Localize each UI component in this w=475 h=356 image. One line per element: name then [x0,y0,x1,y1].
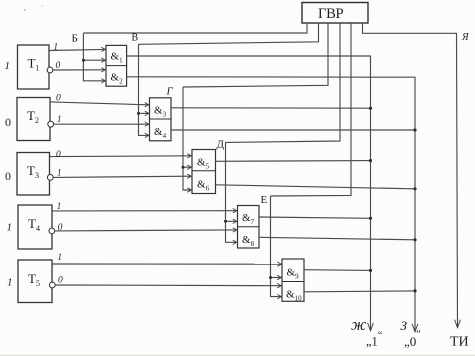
svg-text:ГВР: ГВР [318,6,343,22]
junction dot net Е tap [269,276,272,279]
svg-text:Б: Б [72,33,78,45]
svg-text:З: З [401,318,408,333]
wire: gate &10 output joining З line [304,290,415,293]
wire: gate &2 output to collector line З [127,77,415,332]
svg-text:0: 0 [58,223,63,233]
T2 inverted output pin (bubble) [48,121,54,127]
svg-text:ж: ж [351,315,367,334]
wire: net Е tap to gate &9 input 2 [271,277,282,279]
T4 inverted output pin (bubble) [49,228,55,234]
generator block ГВР [302,3,368,24]
wire: net Г tap to gate &5 input 2 [183,166,191,168]
gate block U4: AND gates &7 and &8 [238,206,260,249]
wire: T1 direct output 1 to gate &1 input 1 [49,49,105,50]
svg-text:1: 1 [5,60,11,72]
wire: T2 direct output 0 to gate &3 input 1 [50,102,149,105]
scan artifact speck [24,9,26,11]
wire: net В tap to gate &3 input 2 [139,112,149,114]
T3 inverted output pin (bubble) [47,175,53,181]
svg-text:1: 1 [54,42,59,52]
junction dot net Г tap [182,166,185,169]
wire: ГВР pin6 to node Я and ТИ output [363,23,458,328]
wire: net Д tap to gate &7 input 2 [226,220,237,222]
wire: net Е vertical feed [271,196,282,297]
wire: gate &5 output joining ж line [216,160,371,163]
junction dot net В tap [137,112,140,115]
svg-text:0: 0 [5,169,11,183]
wire: net Б vertical feed [83,33,105,81]
wire: net Г vertical feed [183,87,191,190]
wire: gate &6 output joining З line [216,185,416,189]
wire: T3 inverted output 1 to gate &6 input 1 [53,176,191,177]
junction dot net Б tap [82,59,85,62]
junction dot &5 output on ж line [369,159,372,162]
wire: gate &7 output joining ж line [259,217,371,218]
svg-text:1: 1 [57,201,62,211]
wire: net Д vertical feed [226,142,237,242]
svg-text:1: 1 [7,277,13,289]
wire: net Б tap to gate &1 input 2 [83,59,105,61]
junction dot &8 output on З line [413,238,416,241]
svg-text:Г: Г [166,86,174,98]
wire: gate &3 output joining ж line [171,107,371,109]
svg-text:Д: Д [217,139,225,151]
svg-text:1: 1 [57,168,62,178]
wire: net В vertical feed [139,44,149,135]
wire: T4 inverted output 0 to gate &8 input 1 [55,230,237,231]
gate block U5: AND gates &9 and &10 [282,259,304,302]
gate block U2: AND gates &3 and &4 [150,98,172,141]
svg-text:0: 0 [56,150,61,160]
svg-text:Е: Е [261,194,268,206]
wire: T2 inverted output 1 to gate &4 input 1 [54,123,149,125]
wire: T5 direct output 1 to gate &9 input 1 [52,263,281,265]
junction dot &6 output on З line [413,187,416,190]
gate block U1: AND gates &1 and &2 [106,45,127,86]
trigger T4 [18,205,52,249]
wire: gate &4 output joining З line [171,129,415,131]
trigger T3 [17,153,50,196]
junction dot net Д tap [224,220,227,223]
svg-text:1: 1 [57,114,62,124]
gate block U3: AND gates &5 and &6 [192,150,216,194]
trigger T2 [17,98,50,141]
T1 inverted output pin (bubble) [47,67,53,73]
wire: ГВР pin2 drop to net В [139,23,319,44]
svg-text:ТИ: ТИ [450,335,469,350]
svg-text:1: 1 [7,222,13,234]
junction dot &3 output on ж line [369,107,372,110]
wire: gate &1 output to collector line ж [127,56,371,331]
wire: ГВР pin3 drop to net Г [183,23,328,87]
junction dot &7 output on ж line [369,217,372,220]
svg-text:0: 0 [56,61,61,71]
trigger T1 [18,45,50,89]
wire: T1 inverted output 0 to gate &2 input 1 [53,69,105,71]
svg-text:0: 0 [56,94,61,104]
scan artifact bottom edge [0,355,475,356]
svg-text:0: 0 [58,276,63,286]
wire: T5 inverted output 0 to gate &10 input 1 [55,284,281,287]
wire: ГВР pin5 drop to net Е [271,23,352,196]
wire: gate &8 output joining З line [259,237,415,240]
svg-text:1: 1 [58,252,63,262]
junction dot &10 output on З line [413,289,416,292]
wire: ГВР pin4 drop to net Д [226,23,341,142]
junction dot &4 output on З line [413,128,416,131]
wire: ГВР pin1 drop to net Б [83,23,307,33]
svg-text:В: В [132,33,139,44]
wire: T4 direct output 1 to gate &7 input 1 [52,210,237,212]
wire: T3 direct output 0 to gate &5 input 1 [50,155,192,158]
trigger T5 [18,260,52,303]
T5 inverted output pin (bubble) [49,282,55,288]
junction dot &9 output on ж line [369,269,372,272]
wire: gate &9 output joining ж line [304,269,371,272]
svg-text:0: 0 [5,115,11,129]
